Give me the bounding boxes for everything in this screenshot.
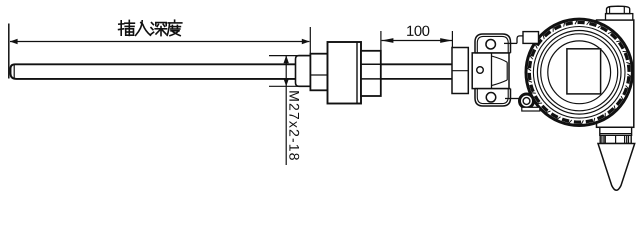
mounting bracket middle plate — [472, 53, 509, 89]
dimension: M27 thread — [269, 56, 310, 165]
arrowhead right — [302, 39, 310, 44]
dimension line — [10, 41, 309, 43]
cable gland tick band — [600, 135, 631, 143]
label M27x2-18 (rotated) — [289, 91, 299, 160]
right extension line — [309, 27, 311, 53]
cable gland cone — [598, 144, 635, 191]
dimension: 100 — [381, 31, 453, 51]
dimension: insertion depth — [9, 24, 311, 79]
bezel ring circle — [541, 34, 618, 111]
serration inner circle — [533, 27, 625, 119]
union flange — [452, 48, 468, 94]
bracket middle small hole — [477, 67, 484, 74]
probe tip cap line — [13, 64, 15, 78]
label 100 — [407, 26, 429, 36]
arrowhead left — [10, 39, 18, 44]
bracket clamp jaw — [492, 53, 508, 89]
probe tube — [11, 64, 298, 79]
label 插入深度 (hand-drawn glyphs) — [119, 20, 182, 35]
collar segment — [310, 54, 327, 91]
transmitter body block (housing side, behind bezel) — [597, 20, 634, 127]
knurl serration ticks — [527, 20, 630, 124]
bracket top screw hole — [486, 39, 496, 49]
bracket bottom screw hole — [486, 93, 496, 103]
cover face circle — [537, 31, 621, 115]
深 — [151, 23, 167, 36]
right boss segment — [361, 51, 381, 96]
knurled ring dashes — [529, 22, 629, 122]
bracket bottom lug — [475, 89, 511, 106]
thread tip segment — [296, 56, 311, 87]
glass circle — [548, 41, 611, 104]
neck tube between boss and flange — [381, 64, 452, 79]
top conduit neck — [606, 14, 633, 20]
left extension line — [8, 24, 10, 79]
bracket top lug — [475, 34, 511, 53]
display window — [567, 49, 601, 94]
top conduit cap — [607, 6, 630, 13]
ground screw lug bottom-left of bezel — [505, 94, 540, 111]
hex body — [328, 42, 362, 104]
cable gland collar band 1 — [600, 127, 632, 135]
度 — [167, 20, 182, 35]
hinge tab top-left of bezel — [504, 32, 539, 44]
入 — [136, 21, 151, 36]
插 — [119, 20, 135, 35]
bezel cover outer circle — [527, 20, 631, 124]
